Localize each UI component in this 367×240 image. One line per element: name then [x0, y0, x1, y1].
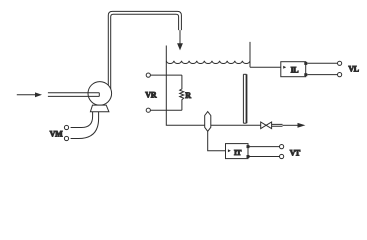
wire IT to VT top: [250, 146, 280, 148]
terminal VL bottom: [338, 73, 342, 77]
inlet flow arrow: [17, 92, 42, 97]
IL input arrowhead: [283, 66, 286, 69]
svg-text:IL: IL: [291, 66, 299, 75]
motor cable elbow to VM: [71, 112, 99, 139]
wire VR bottom to resistor branch: [150, 109, 182, 111]
converter IL box: [281, 62, 306, 77]
outlet pipe stub after valve (double line): [272, 124, 283, 126]
wire IT to VT bottom: [250, 156, 280, 158]
outlet flow arrow: [283, 123, 306, 128]
suction pipe (double line into pump): [48, 93, 99, 97]
wire VR top to resistor branch: [150, 74, 182, 76]
terminal VM bottom: [64, 136, 68, 140]
riser pipe from pump to tank (double line with rounded corners): [108, 11, 181, 89]
pump P1 (circle body): [88, 82, 112, 106]
wire probe to IL box: [250, 66, 281, 68]
tank left wall and drain pipe: [166, 46, 260, 126]
level probe stem: [249, 42, 251, 67]
terminal VT top: [280, 145, 284, 149]
terminal VL top: [338, 61, 342, 65]
orifice flow element (hexagon): [205, 112, 211, 132]
tap wire orifice to IT box: [208, 131, 226, 150]
tank inlet arrow: [177, 30, 183, 50]
svg-text:R: R: [185, 91, 191, 100]
terminal VM top: [64, 125, 68, 129]
converter IT box: [226, 144, 249, 159]
IL output pin top: [304, 62, 307, 65]
IT input arrowhead: [228, 149, 231, 152]
IT output pin top: [247, 145, 250, 148]
drain valve (bowtie): [261, 122, 272, 129]
svg-text:VT: VT: [290, 148, 301, 157]
svg-text:VM: VM: [50, 130, 63, 139]
terminal VR top: [146, 73, 150, 77]
wire IL to VL top: [307, 62, 337, 64]
IT output pin bottom: [247, 155, 250, 158]
terminal VR bottom: [146, 108, 150, 112]
pump base (trapezoid): [90, 105, 109, 112]
svg-text:VL: VL: [348, 65, 358, 74]
wire IL to VL bottom: [307, 74, 337, 76]
level probe tube: [243, 74, 246, 123]
water surface (wavy line): [166, 61, 250, 64]
svg-text:VR: VR: [145, 91, 156, 100]
IL output pin bottom: [304, 73, 307, 76]
terminal VT bottom: [280, 154, 284, 158]
svg-text:IT: IT: [234, 148, 241, 157]
resistor R (heater in tank): [180, 75, 184, 110]
